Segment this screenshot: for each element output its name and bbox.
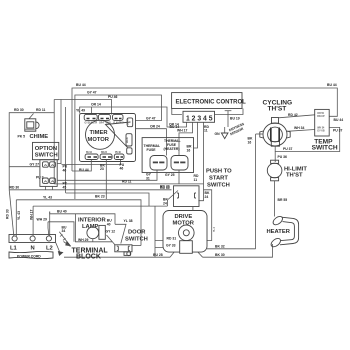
svg-text:RD-UP: RD-UP [317,116,325,118]
svg-text:START: START [209,176,228,182]
svg-text:RD 30: RD 30 [160,186,170,190]
svg-text:OR 14: OR 14 [91,103,101,107]
wire WH29 left [37,218,75,242]
svg-text:WH 29: WH 29 [37,218,47,222]
thermal fuse F1 [146,156,167,181]
svg-text:RD 30: RD 30 [14,108,24,112]
timer motor box [80,114,136,162]
svg-text:BK 30: BK 30 [215,253,225,257]
svg-text:BU44: BU44 [86,151,93,154]
svg-text:24: 24 [205,195,209,199]
svg-text:GY-UB: GY-UB [317,130,325,132]
svg-text:YL 49: YL 49 [76,109,85,113]
wire motor left stubs [155,241,163,248]
ground GN [215,127,229,139]
svg-text:TIMER: TIMER [90,130,109,136]
wire N drop [30,206,34,236]
svg-text:BLOCK: BLOCK [76,253,101,260]
svg-text:SWITCH: SWITCH [207,183,230,189]
thermal fuse heater F2 [165,156,188,178]
svg-text:DRIVE: DRIVE [175,214,193,220]
wire RD42 [279,113,315,118]
wire RD11 mid [54,180,203,184]
svg-text:SWITCH: SWITCH [312,144,338,151]
wire GY25 drop [178,170,180,184]
wire cycling right vertical long [255,134,257,249]
power cord [9,243,64,259]
svg-text:GY 47: GY 47 [146,116,156,120]
wire PU46 net under timer [62,159,121,164]
svg-text:PU46: PU46 [115,151,121,154]
terminal block TB1 [9,235,56,252]
svg-text:GN: GN [215,132,221,136]
door switch [107,219,148,256]
wire PU36 [275,152,287,163]
svg-text:BU 19: BU 19 [230,117,240,121]
svg-text:GY 12: GY 12 [106,230,116,234]
svg-text:PU 37: PU 37 [283,147,293,151]
svg-text:SWITCH: SWITCH [35,153,58,159]
svg-text:16: 16 [187,148,191,152]
svg-text:L2: L2 [46,246,53,252]
wire PK45 option lower stub to fuse [57,170,157,180]
wire terminal4 drop [194,123,198,149]
interior lamp [50,209,115,242]
svg-text:PU 37: PU 37 [333,129,343,133]
svg-text:POWER CORD: POWER CORD [17,255,41,259]
wire PU46 option stub [57,163,61,165]
svg-text:11: 11 [194,178,198,182]
svg-text:45: 45 [63,185,67,189]
option switch [30,142,68,189]
chime [18,114,49,141]
wire BK23 timer drop [105,159,107,199]
svg-text:BU 44: BU 44 [76,83,86,87]
wire GY47 [75,91,162,200]
svg-text:WH 29: WH 29 [78,238,88,242]
svg-text:BK23: BK23 [101,152,108,154]
svg-text:BU 44: BU 44 [327,83,337,87]
temp switch [312,109,338,151]
wire YL49 stub into timer top [76,107,92,115]
svg-text:RD30: RD30 [127,136,129,143]
svg-text:WH8: WH8 [106,123,112,125]
svg-text:L1: L1 [10,246,18,252]
wire PU37 [275,127,342,151]
svg-text:OPTION: OPTION [35,146,57,152]
svg-text:WH 17: WH 17 [177,129,187,133]
svg-text:WH 34: WH 34 [294,126,304,130]
svg-text:46: 46 [63,168,67,172]
svg-text:BR 55: BR 55 [278,198,288,202]
wire BU44 to timer bottom contact [72,159,91,171]
svg-text:BU 44: BU 44 [334,118,344,122]
svg-text:GY 25: GY 25 [165,173,175,177]
svg-text:PU2: PU2 [119,123,124,125]
wire motor top stub [192,207,194,211]
svg-text:RD 11: RD 11 [36,108,46,112]
dryness sensor electrode [225,111,246,137]
wire BK30 [203,244,273,257]
wire BU19 sensor [215,109,243,121]
svg-text:BU 40: BU 40 [57,209,67,213]
wire L2 WH29 slant [47,222,50,236]
svg-text:N: N [31,246,35,252]
svg-text:PU 36: PU 36 [278,155,288,159]
svg-text:31: 31 [146,176,150,180]
wire L1 drop [6,190,14,236]
wire WH17 [177,123,193,156]
svg-text:PU 3: PU 3 [36,176,44,180]
wire RD11 terminal5 drop [194,123,210,201]
svg-text:RD 42: RD 42 [288,113,298,117]
svg-text:PK 5: PK 5 [18,135,26,139]
svg-text:OR 24: OR 24 [150,124,160,128]
cycling thermostat [260,100,292,147]
svg-text:WH 17: WH 17 [30,210,34,220]
svg-text:1 2 3 4 5: 1 2 3 4 5 [186,113,213,122]
svg-text:23: 23 [100,167,104,171]
wire L2 drop [49,212,51,237]
svg-text:BU 28: BU 28 [153,253,163,257]
svg-text:RD 31: RD 31 [167,237,177,241]
svg-text:(HEATER): (HEATER) [164,147,180,151]
wire neutral run [33,205,167,207]
svg-text:MOTOR: MOTOR [88,137,110,143]
svg-text:40: 40 [107,222,111,226]
svg-text:RD 30: RD 30 [10,185,20,189]
svg-text:11: 11 [204,129,208,133]
wire BR55 [275,181,288,217]
timer bottom contacts [79,151,125,172]
svg-text:TH'ST: TH'ST [268,106,287,113]
wire cycling left BK [248,134,264,144]
svg-text:RD 11: RD 11 [122,180,132,184]
push to start switch [160,169,232,207]
svg-text:GY 33: GY 33 [166,244,176,248]
electronic control U1 [170,93,247,130]
wire PU46 upper [54,95,117,164]
svg-text:FUSE: FUSE [147,148,157,152]
svg-text:GY 47: GY 47 [87,91,97,95]
svg-text:YL 43: YL 43 [43,195,52,199]
svg-text:DOOR: DOOR [128,230,146,236]
svg-text:46: 46 [120,167,124,171]
wire GY27 from left bus to option switch [9,166,40,168]
svg-text:YL 38: YL 38 [124,219,133,223]
wire RD30/RD11 chime feed [9,100,54,190]
svg-text:INTERIOR: INTERIOR [78,218,107,224]
svg-text:WH 34: WH 34 [317,127,325,130]
thermal fuse enclosure [142,138,193,173]
ground strap [59,232,71,247]
wire BK32 [207,245,256,249]
svg-text:YL 43: YL 43 [17,211,21,220]
svg-text:YL 3: YL 3 [214,226,216,232]
wire option to push area [66,193,149,206]
svg-text:16: 16 [248,140,252,144]
svg-text:PUSH TO: PUSH TO [206,169,232,175]
wire BU28 bottom bus [64,253,170,257]
heater [267,215,299,249]
svg-text:HEATER: HEATER [267,229,291,235]
terminal block label [64,242,109,261]
wire BU44 top bus [72,83,343,171]
svg-text:BK 32: BK 32 [215,245,225,249]
svg-text:34: 34 [62,229,66,233]
wire RD30 mid [9,185,216,240]
wire OR14 [66,103,187,194]
svg-text:BU14: BU14 [91,122,98,125]
wire push switch blade drop [167,200,169,207]
hi-limit thermostat [267,160,307,181]
wire YL43 L1 drop [16,200,21,236]
drive motor M1 [163,211,207,258]
svg-text:PU 46: PU 46 [108,95,118,99]
wire bottom bus drop [154,206,156,257]
svg-text:GY 27: GY 27 [30,162,40,166]
timer right contacts [126,118,133,154]
wire YL43/BK23 [16,194,141,245]
wire WH34 [287,126,315,132]
svg-text:BK 23: BK 23 [95,194,105,198]
svg-text:GY47: GY47 [126,118,129,125]
svg-text:TH'ST: TH'ST [286,173,303,179]
wire OR24 [136,124,167,155]
svg-text:ELECTRONIC CONTROL: ELECTRONIC CONTROL [176,99,247,105]
svg-text:RD 33: RD 33 [6,209,10,219]
svg-text:CHIME: CHIME [30,134,49,140]
svg-text:24: 24 [163,201,167,205]
svg-text:OR 50: OR 50 [317,113,324,115]
timer top contacts [84,114,124,124]
svg-text:SWITCH: SWITCH [125,237,148,243]
svg-text:OR4: OR4 [99,122,104,125]
